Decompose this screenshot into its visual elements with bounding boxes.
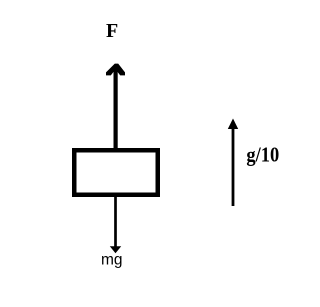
block (mass)	[74, 150, 158, 195]
weight arrow mg shaft (wire)	[114, 197, 117, 248]
weight arrow mg head	[110, 246, 121, 253]
svg-text:F: F	[106, 20, 118, 42]
svg-text:g/10: g/10	[246, 143, 279, 167]
acceleration arrow g/10 head	[228, 119, 238, 130]
svg-text:mg: mg	[101, 252, 123, 269]
acceleration arrow g/10 shaft (wire)	[232, 127, 235, 206]
force arrow F head	[106, 64, 125, 76]
force arrow F shaft (wire)	[113, 65, 117, 150]
